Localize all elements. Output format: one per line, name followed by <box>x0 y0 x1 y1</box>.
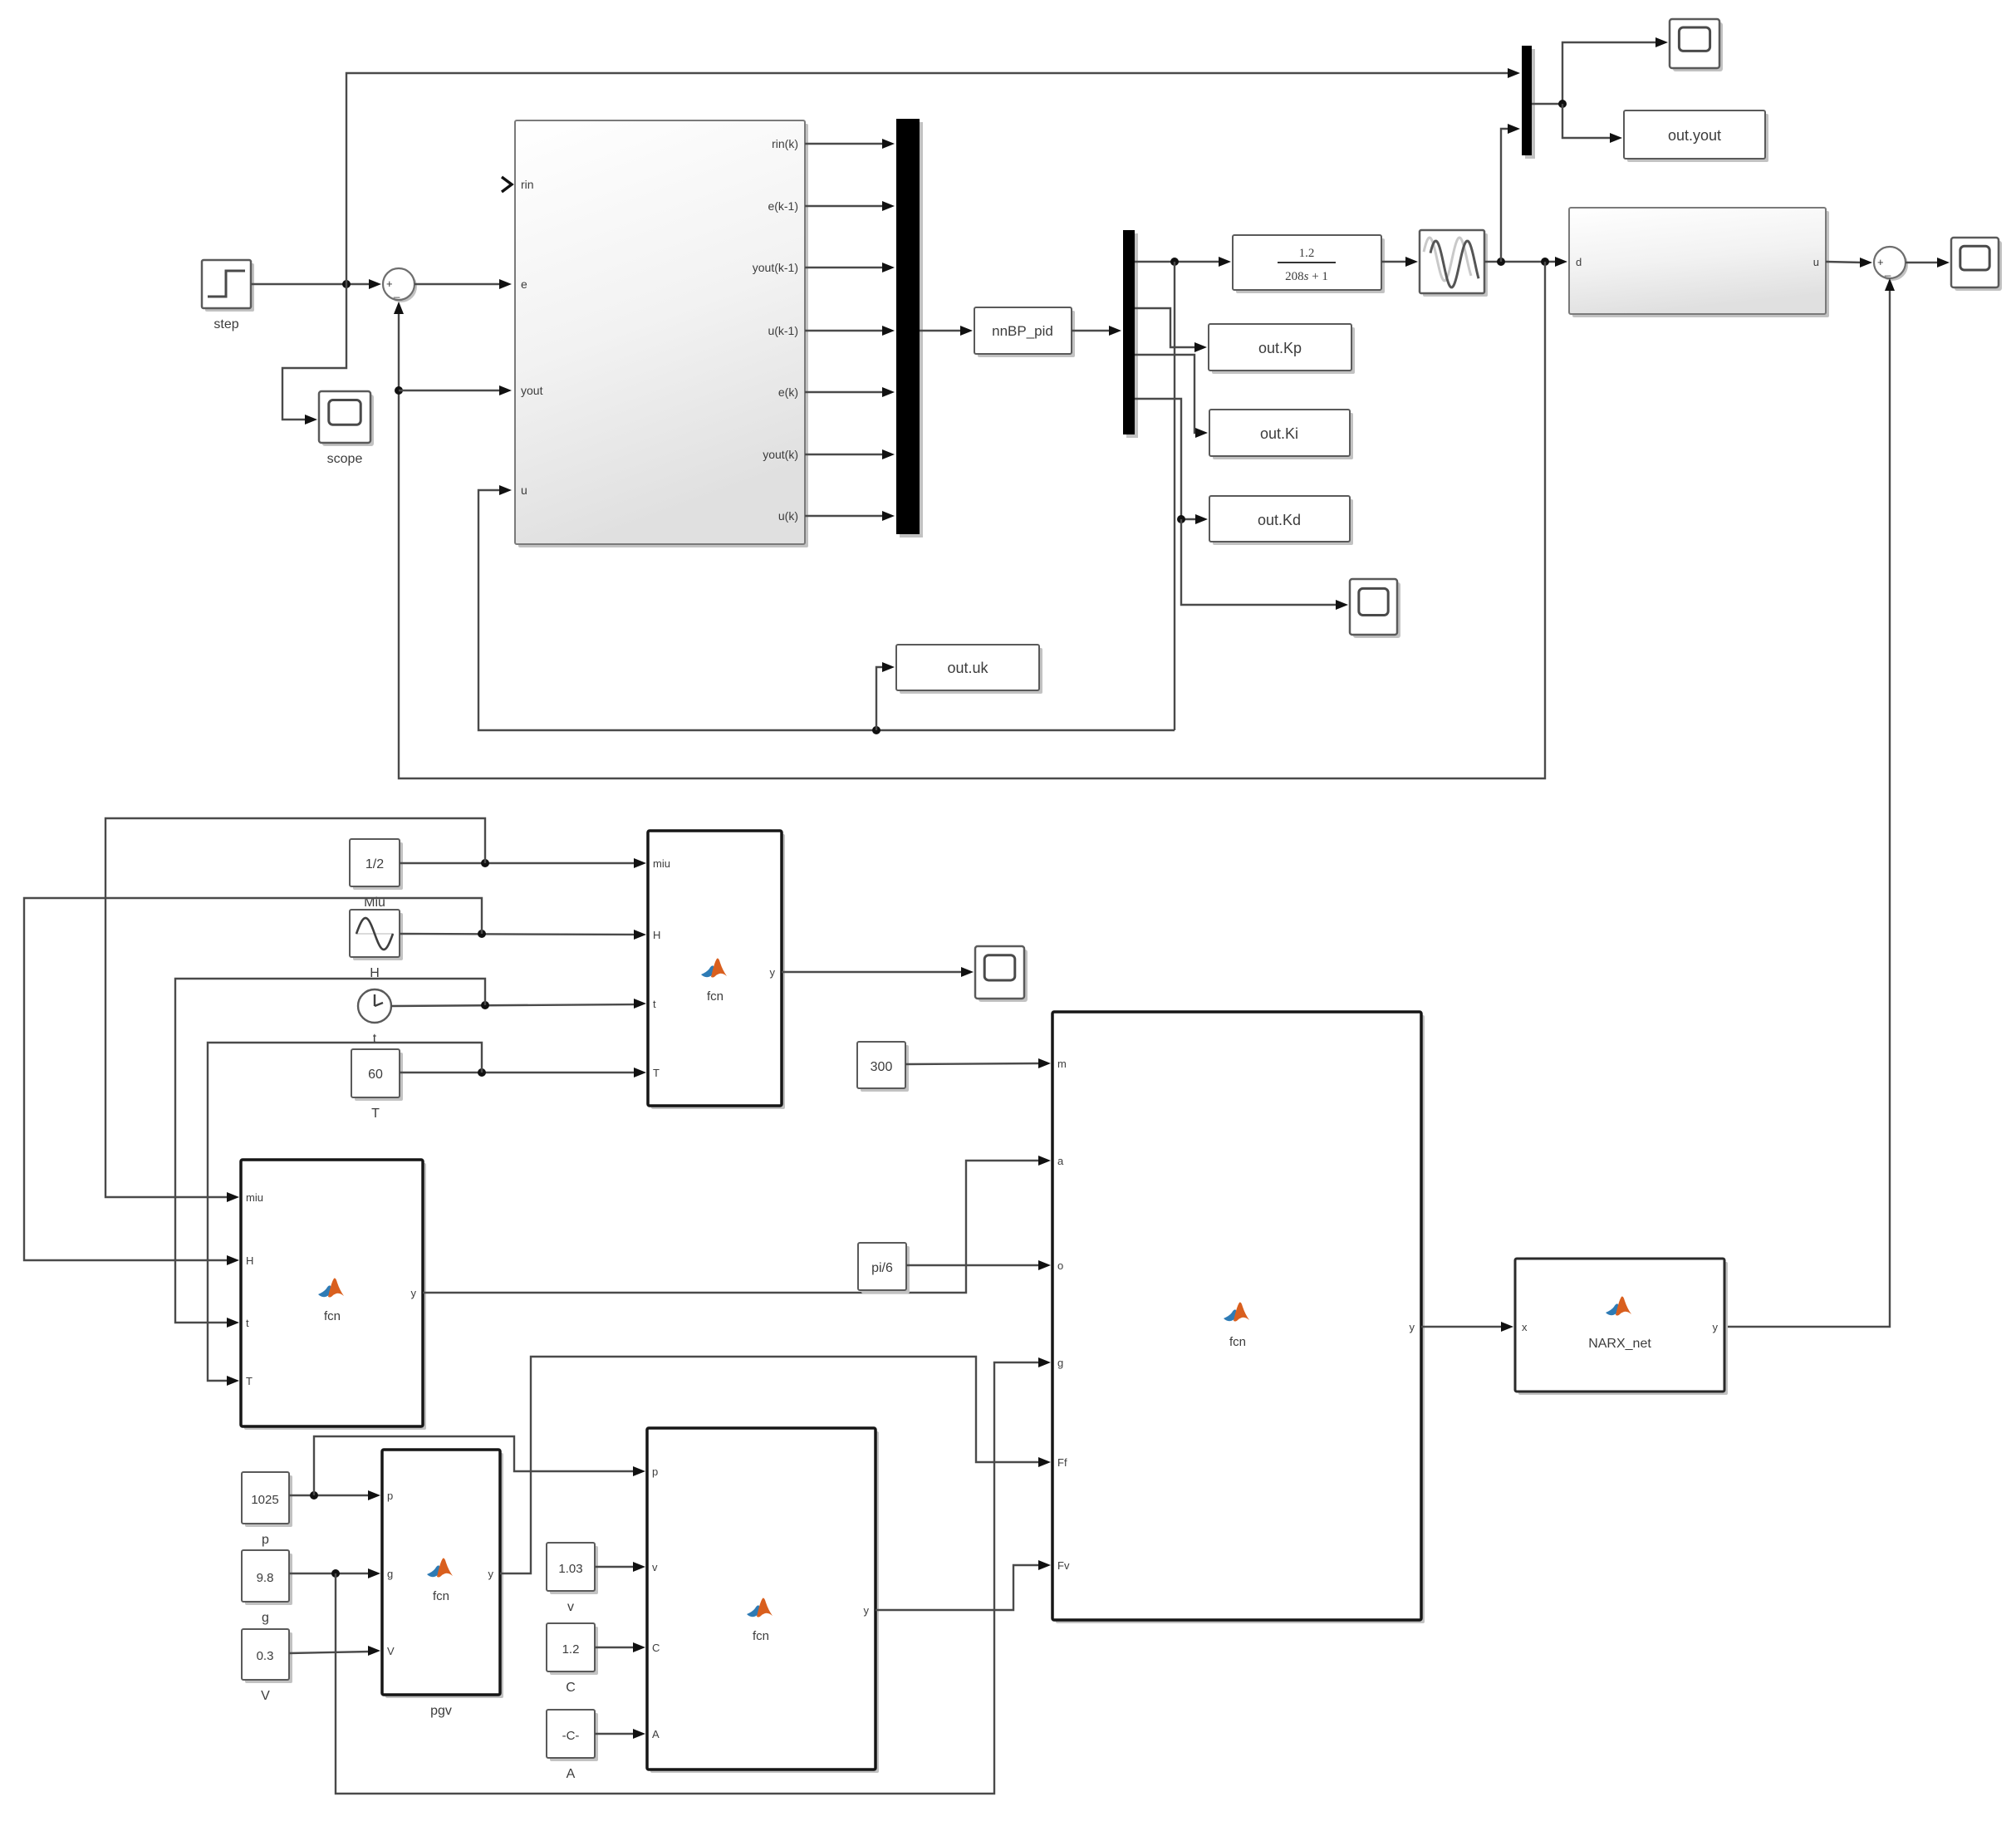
svg-text:y: y <box>770 966 776 979</box>
wire constant 300 to fcn3 m <box>905 1058 1051 1068</box>
out.yout block <box>1624 110 1768 162</box>
svg-text:T: T <box>653 1067 660 1079</box>
wire sum1 to e input <box>414 279 512 289</box>
svg-text:e(k): e(k) <box>778 385 798 399</box>
wire H branch to fcn2 <box>24 898 482 1265</box>
svg-text:p: p <box>262 1533 269 1547</box>
svg-text:y: y <box>1713 1321 1719 1333</box>
svg-text:C: C <box>566 1681 576 1695</box>
svg-text:_: _ <box>1884 264 1891 277</box>
svg-text:u(k): u(k) <box>778 509 798 523</box>
svg-text:pi/6: pi/6 <box>871 1261 893 1275</box>
sum junction sum1 <box>383 268 417 302</box>
wire wave to plant d <box>1484 257 1567 267</box>
svg-text:H: H <box>653 929 660 941</box>
svg-text:e: e <box>521 277 527 291</box>
svg-text:y: y <box>411 1287 417 1299</box>
pgv MATLAB function block <box>382 1450 503 1718</box>
nnBP_pid block <box>974 307 1075 357</box>
svg-text:scope: scope <box>327 452 363 466</box>
svg-text:u: u <box>521 483 527 497</box>
wire demux Ki to out.Ki <box>1135 355 1208 438</box>
wire g branch to fcn3 g <box>336 1357 1051 1794</box>
svg-text:1.03: 1.03 <box>558 1562 582 1576</box>
wire e(k) to mux1 <box>805 387 895 397</box>
plant subsystem block <box>1569 208 1829 317</box>
svg-text:a: a <box>1057 1155 1064 1167</box>
wire step output to sum1 <box>251 279 381 289</box>
wire branch up to mux2 <box>1501 124 1520 262</box>
svg-text:v: v <box>652 1561 658 1573</box>
mux1 bar <box>896 119 923 537</box>
svg-text:fcn: fcn <box>707 989 724 1004</box>
svg-text:yout(k-1): yout(k-1) <box>753 261 798 274</box>
svg-text:g: g <box>262 1611 269 1625</box>
sine wave block <box>350 910 403 980</box>
NARX_net block <box>1515 1259 1728 1395</box>
wire 0.3 to pgv V <box>289 1646 380 1656</box>
wire fcn4 y to fcn3 Fv <box>876 1560 1051 1610</box>
subsystem data collector <box>502 120 808 547</box>
svg-text:rin: rin <box>521 178 534 191</box>
svg-text:1.2: 1.2 <box>1299 247 1315 260</box>
out.Ki block <box>1209 410 1353 459</box>
constant 1.2 block <box>547 1623 598 1695</box>
svg-text:u: u <box>1813 256 1819 268</box>
svg-text:nnBP_pid: nnBP_pid <box>992 323 1053 339</box>
wire mux2 to scope3 <box>1532 37 1668 108</box>
constant 60 block <box>351 1049 403 1121</box>
svg-text:out.Kd: out.Kd <box>1258 512 1301 528</box>
scope3 block <box>1670 19 1723 71</box>
svg-text:+: + <box>386 277 393 290</box>
constant 0.3 block <box>242 1629 292 1703</box>
svg-text:out.yout: out.yout <box>1668 127 1721 144</box>
wire nnBP_pid to demux <box>1072 326 1121 336</box>
wire rin(k) to mux1 <box>805 139 895 149</box>
clock block <box>358 989 391 1046</box>
svg-text:_: _ <box>393 286 400 298</box>
svg-text:v: v <box>567 1600 574 1614</box>
sum junction sum2 <box>1874 247 1908 281</box>
wire yout(k-1) to mux1 <box>805 263 895 272</box>
wire fcn1 y to scope5 <box>782 967 974 977</box>
svg-text:T: T <box>371 1107 380 1121</box>
wire fcn3 y to NARX_net <box>1421 1322 1513 1332</box>
wire mux1 to nnBP_pid <box>920 326 973 336</box>
wire demux Kd to out.Kd <box>1135 399 1208 524</box>
svg-text:y: y <box>864 1604 870 1617</box>
wire Kd branch to scope2 <box>1181 519 1348 610</box>
svg-text:9.8: 9.8 <box>257 1571 274 1585</box>
svg-text:A: A <box>652 1728 660 1740</box>
svg-text:V: V <box>261 1689 270 1703</box>
wire u(k) to mux1 <box>805 511 895 521</box>
wire yout feedback <box>394 262 1545 778</box>
wire plant to sum2 <box>1826 258 1872 268</box>
svg-text:V: V <box>387 1645 395 1657</box>
svg-text:t: t <box>653 998 656 1010</box>
svg-text:p: p <box>387 1490 393 1502</box>
svg-text:0.3: 0.3 <box>257 1649 274 1663</box>
demux bar <box>1123 230 1138 438</box>
svg-text:pgv: pgv <box>430 1704 452 1718</box>
svg-text:y: y <box>488 1568 494 1580</box>
constant 1.03 block <box>547 1543 598 1614</box>
wire p branch to fcn4 p <box>314 1436 645 1495</box>
scope2 block <box>1350 579 1400 638</box>
svg-text:y: y <box>1410 1321 1415 1333</box>
wire t branch to fcn2 <box>175 979 485 1328</box>
svg-text:yout: yout <box>521 384 543 397</box>
svg-text:t: t <box>246 1317 249 1329</box>
wire sum2 to scope4 <box>1906 258 1950 268</box>
wire fcn2 y to fcn3 a <box>423 1156 1051 1293</box>
svg-text:miu: miu <box>653 857 670 870</box>
wire pi/6 to fcn3 o <box>906 1260 1051 1270</box>
svg-text:C: C <box>652 1642 660 1654</box>
svg-text:out.uk: out.uk <box>947 660 988 676</box>
svg-text:fcn: fcn <box>753 1629 769 1643</box>
constant -C- block <box>547 1710 598 1781</box>
wire rin branch to scope <box>282 284 346 425</box>
svg-text:1025: 1025 <box>251 1493 278 1507</box>
wire yout(k) to mux1 <box>805 449 895 459</box>
svg-text:60: 60 <box>368 1068 383 1082</box>
wire u(k-1) to mux1 <box>805 326 895 336</box>
wire e(k-1) to mux1 <box>805 201 895 211</box>
svg-text:fcn: fcn <box>324 1309 341 1323</box>
out.uk block <box>896 645 1042 694</box>
wire 9.8 to pgv g <box>289 1568 380 1578</box>
svg-text:300: 300 <box>871 1060 893 1074</box>
wire miu branch to fcn2 <box>105 818 485 1202</box>
scope5 block <box>975 946 1028 1002</box>
transfer fcn block <box>1233 235 1385 293</box>
step source block <box>202 260 254 331</box>
svg-text:T: T <box>246 1375 253 1387</box>
wire u branch to out.uk <box>876 662 895 730</box>
svg-text:out.Kp: out.Kp <box>1258 340 1302 356</box>
wire transfer fcn to wave block <box>1381 257 1418 267</box>
out.Kp block <box>1209 324 1355 374</box>
svg-text:out.Ki: out.Ki <box>1260 425 1298 442</box>
svg-text:NARX_net: NARX_net <box>1588 1337 1651 1351</box>
wire sine to fcn1 H <box>400 930 646 940</box>
svg-text:p: p <box>652 1465 658 1478</box>
wire pgv y to fcn3 Ff <box>500 1357 1051 1573</box>
fcn3 MATLAB function block <box>1052 1012 1425 1623</box>
svg-text:1.2: 1.2 <box>562 1642 580 1657</box>
svg-text:A: A <box>567 1767 576 1781</box>
constant 9.8 block <box>242 1550 292 1625</box>
svg-text:Fv: Fv <box>1057 1559 1070 1572</box>
constant 1025 block <box>242 1472 292 1547</box>
svg-text:208s + 1: 208s + 1 <box>1285 270 1328 283</box>
svg-text:step: step <box>213 317 238 331</box>
wire 1.2 to fcn4 C <box>595 1642 645 1652</box>
svg-text:e(k-1): e(k-1) <box>768 199 798 213</box>
wire clock to fcn1 t <box>391 999 646 1009</box>
svg-text:Ff: Ff <box>1057 1456 1067 1469</box>
svg-text:+: + <box>1877 256 1884 268</box>
svg-text:d: d <box>1576 256 1582 268</box>
scope4 block <box>1951 238 2002 291</box>
svg-text:miu: miu <box>246 1191 263 1204</box>
wire yout branch to yout input <box>399 385 512 395</box>
mux2 bar <box>1522 46 1535 159</box>
wire u feedback to subsystem <box>478 485 1175 734</box>
svg-text:x: x <box>1522 1321 1528 1333</box>
constant 1/2 block <box>350 839 403 910</box>
wire mux2 to out.yout <box>1562 104 1622 143</box>
constant pi/6 block <box>858 1243 910 1293</box>
svg-text:m: m <box>1057 1058 1067 1070</box>
wire 1025 to pgv p <box>289 1490 380 1500</box>
svg-text:1/2: 1/2 <box>365 857 384 871</box>
svg-text:g: g <box>1057 1357 1063 1369</box>
fcn1 MATLAB function block <box>648 831 785 1109</box>
svg-text:o: o <box>1057 1259 1063 1272</box>
constant 300 block <box>857 1042 909 1092</box>
svg-text:yout(k): yout(k) <box>763 448 798 461</box>
wire demux u to transfer fcn <box>1135 257 1231 267</box>
wire 1.03 to fcn4 v <box>595 1562 645 1572</box>
svg-text:fcn: fcn <box>433 1589 449 1603</box>
svg-text:rin(k): rin(k) <box>772 137 798 150</box>
svg-text:fcn: fcn <box>1229 1335 1246 1349</box>
wire constant 60 to fcn1 T <box>400 1068 646 1077</box>
wire T branch to fcn2 <box>208 1043 482 1386</box>
wave block <box>1420 230 1488 297</box>
svg-text:H: H <box>246 1254 253 1267</box>
wire rin branch to top mux <box>346 68 1520 284</box>
svg-text:-C-: -C- <box>562 1729 580 1743</box>
out.Kd block <box>1209 496 1353 545</box>
wire u branch down <box>1174 262 1175 730</box>
wire -C- to fcn4 A <box>595 1729 645 1739</box>
svg-text:g: g <box>387 1568 393 1580</box>
scope block <box>319 391 374 446</box>
fcn4 MATLAB function block <box>647 1428 879 1773</box>
wire demux Kp to out.Kp <box>1135 308 1207 352</box>
wire constant 1/2 to fcn1 miu <box>400 858 646 868</box>
fcn2 MATLAB function block <box>241 1160 426 1430</box>
wire NARX feedback to sum2 <box>1724 278 1895 1327</box>
svg-text:t: t <box>373 1032 377 1046</box>
svg-text:u(k-1): u(k-1) <box>768 324 798 337</box>
